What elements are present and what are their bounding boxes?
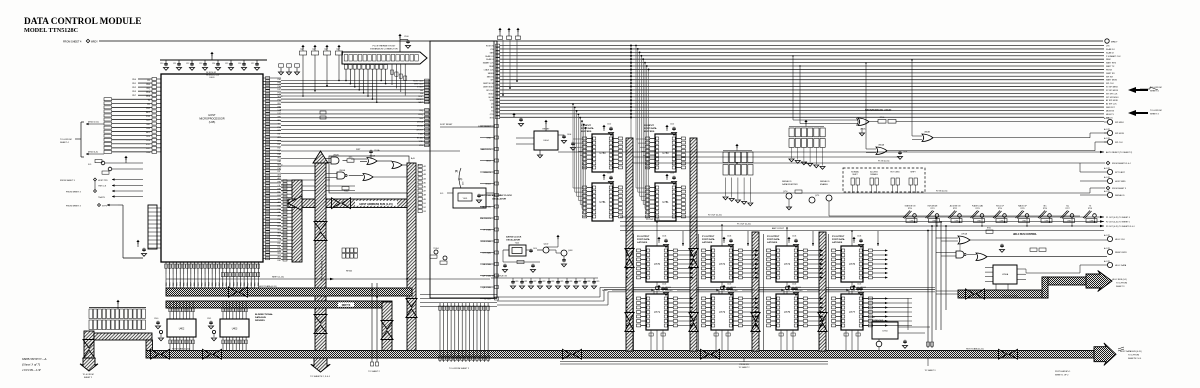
svg-text:C104: C104 — [727, 236, 731, 238]
power VCC latch — [657, 285, 660, 287]
svg-text:PE3: PE3 — [278, 199, 282, 201]
svg-text:WRT CLK: WRT CLK — [414, 84, 424, 86]
svg-text:C425: C425 — [560, 281, 564, 283]
svg-text:ST SPI MOSI: ST SPI MOSI — [1106, 90, 1118, 92]
svg-text:REKEY MPU: REKEY MPU — [1115, 252, 1127, 254]
svg-text:R726: R726 — [1043, 208, 1047, 210]
svg-text:SBRIN: SBRIN — [488, 73, 494, 75]
bus vertical B3 latch — [752, 232, 759, 351]
svg-text:U781: U781 — [662, 200, 669, 204]
svg-text:OSCILLATOR: OSCILLATOR — [506, 239, 520, 242]
wires rail lines to latches — [497, 296, 600, 298]
svg-text:C110: C110 — [670, 124, 674, 126]
wire cluster outputs to bus C — [409, 164, 412, 166]
svg-text:P1 IN (0-15): P1 IN (0-15) — [878, 161, 890, 163]
svg-text:DATA CONTROL MODULE: DATA CONTROL MODULE — [24, 17, 141, 27]
svg-text:TEST: TEST — [486, 161, 492, 163]
svg-text:A10: A10 — [278, 174, 281, 177]
svg-text:PG5: PG5 — [278, 99, 282, 101]
bus arrow host data bottom — [999, 349, 1008, 359]
svg-text:ST SPI MISO: ST SPI MISO — [1106, 87, 1118, 89]
gate U902D AND — [331, 157, 339, 164]
wires latch strobe verticals — [633, 234, 635, 350]
wires HDLC feed into bus — [936, 290, 958, 292]
wire latch pin dots — [821, 250, 823, 252]
svg-text:RP06: RP06 — [880, 117, 885, 119]
svg-text:A8: A8 — [424, 194, 426, 197]
svg-text:REM: REM — [1106, 59, 1111, 61]
svg-text:SPI CLK: SPI CLK — [1106, 83, 1114, 85]
svg-text:BUFFERS: BUFFERS — [581, 131, 592, 133]
gate latch clock inverter — [721, 282, 723, 286]
svg-text:SHEET 4: SHEET 4 — [1150, 91, 1159, 93]
svg-text:DISABLE: DISABLE — [870, 173, 878, 176]
svg-text:RESET: RESET — [543, 129, 551, 131]
svg-text:HALT RCV: HALT RCV — [481, 148, 492, 151]
wires SPI vertical taps — [792, 56, 794, 120]
svg-text:C410: C410 — [533, 248, 537, 250]
svg-text:P1 OUT (0-15) TO SHEET 4: P1 OUT (0-15) TO SHEET 4 — [1106, 217, 1130, 219]
svg-text:C104: C104 — [857, 284, 861, 286]
svg-text:PD4: PD4 — [278, 93, 282, 95]
svg-text:WDAT: WDAT — [732, 289, 739, 292]
svg-text:HOST: HOST — [208, 113, 216, 117]
svg-text:P2 OUTPUT: P2 OUTPUT — [767, 236, 780, 238]
wire latch clock from P OUT lines — [851, 231, 853, 246]
svg-text:U781: U781 — [599, 200, 606, 204]
svg-text:PG5: PG5 — [278, 195, 282, 197]
wire latch pin dots — [821, 298, 823, 300]
gate U902A NAND — [337, 172, 345, 179]
resistor R403 — [517, 260, 524, 263]
svg-text:U776: U776 — [849, 262, 856, 266]
svg-text:RP9: RP9 — [349, 157, 353, 159]
power VCC reset — [544, 120, 547, 122]
gate U761C — [976, 253, 987, 261]
svg-text:WT SPI MISO: WT SPI MISO — [1106, 97, 1119, 99]
svg-text:PB0: PB0 — [278, 106, 282, 108]
wires latch right side loads — [808, 250, 821, 252]
bus arrow B2b — [689, 313, 698, 322]
capacitor C424 osc row — [548, 278, 550, 280]
svg-text:C104: C104 — [662, 236, 666, 238]
svg-text:TRH CLK: TRH CLK — [98, 186, 107, 188]
svg-text:C1040: C1040 — [731, 287, 736, 289]
bus arrow resnet — [83, 340, 95, 349]
connector circles lower group — [1107, 169, 1112, 174]
svg-text:ACCESS: ACCESS — [870, 171, 878, 174]
svg-text:DATA INVERTER: DATA INVERTER — [782, 183, 798, 186]
svg-text:C426: C426 — [569, 281, 573, 283]
svg-text:PH2: PH2 — [278, 79, 282, 81]
wire latch pin dots — [626, 250, 628, 252]
capacitor C100A — [370, 150, 372, 151]
svg-text:D07: D07 — [278, 89, 281, 91]
bus arrow host data bottom — [203, 349, 212, 359]
svg-text:C1040: C1040 — [666, 287, 671, 289]
svg-text:QB CTAL: QB CTAL — [482, 286, 492, 289]
svg-text:MXD2 (1-6): MXD2 (1-6) — [88, 152, 98, 154]
wire latch pin dots — [691, 250, 693, 252]
bus arrow host data upper — [229, 287, 238, 297]
svg-text:HOST ADDRESS BUS (1-15): HOST ADDRESS BUS (1-15) — [359, 203, 392, 206]
svg-text:C104: C104 — [727, 284, 731, 286]
svg-text:C422: C422 — [533, 281, 537, 283]
grounds RN702 — [725, 178, 727, 197]
bus arrowhead to from sheet 2 left — [80, 358, 98, 371]
svg-text:HDLC BUS CONTROL: HDLC BUS CONTROL — [1013, 234, 1037, 236]
bus vertical B2 input port — [690, 138, 697, 351]
svg-text:TO SHEET 2: TO SHEET 2 — [368, 371, 380, 373]
svg-text:SCK: SCK — [146, 144, 151, 146]
testpoint TP404 — [434, 250, 438, 254]
bus arrow B1b — [625, 313, 634, 322]
power VCC latch — [787, 285, 790, 287]
power VCC cluster left of P10 — [301, 45, 304, 47]
svg-text:LTALK CLK: LTALK CLK — [484, 68, 494, 71]
svg-text:FROM SHEET 3: FROM SHEET 3 — [1112, 188, 1126, 190]
svg-text:SMART CLK: SMART CLK — [483, 62, 494, 65]
resistor network RN703 — [789, 128, 794, 137]
svg-text:MRDY: MRDY — [1111, 42, 1118, 44]
capacitor C405 — [572, 142, 574, 143]
bus long signal lines to right sheets — [500, 45, 1104, 47]
IC latch U7720 — [776, 246, 798, 282]
wire latch pin dots — [626, 298, 628, 300]
svg-text:A2: A2 — [424, 169, 426, 172]
svg-text:A-01 P1: A-01 P1 — [1104, 260, 1110, 263]
svg-text:IRQ: IRQ — [278, 120, 282, 122]
svg-text:68P81095E37—A: 68P81095E37—A — [22, 357, 47, 361]
power VCC latch — [852, 285, 855, 287]
svg-text:PORT DATA: PORT DATA — [644, 127, 657, 130]
svg-text:SLAN DO: SLAN DO — [1106, 48, 1115, 51]
connector circles SPI right — [1107, 119, 1112, 124]
svg-text:C110: C110 — [670, 173, 674, 175]
svg-text:LATCHES: LATCHES — [767, 241, 778, 244]
svg-text:IRQ: IRQ — [278, 158, 282, 160]
svg-text:TO & FROM: TO & FROM — [1116, 283, 1127, 285]
bus left input bundle MXDB upper — [112, 98, 152, 100]
svg-text:(Sheet 3 of 7): (Sheet 3 of 7) — [22, 363, 41, 367]
svg-text:WDAT: WDAT — [797, 289, 804, 292]
svg-text:U404: U404 — [543, 140, 549, 142]
svg-text:C104: C104 — [792, 236, 796, 238]
svg-text:U403: U403 — [232, 329, 238, 331]
power VCC latch — [722, 237, 725, 239]
svg-text:P1 OUT (0-15): P1 OUT (0-15) — [737, 224, 751, 226]
svg-text:HOST DATA (0-15): HOST DATA (0-15) — [172, 348, 190, 351]
svg-text:IRQ: IRQ — [146, 88, 150, 90]
svg-text:FROM SHEET 3: FROM SHEET 3 — [60, 180, 76, 182]
connector REKEY — [1107, 249, 1112, 254]
svg-text:A10: A10 — [278, 139, 281, 142]
svg-text:MDM TX: MDM TX — [1106, 114, 1115, 116]
svg-text:HOST MRD: HOST MRD — [1115, 181, 1126, 183]
svg-text:U804B: U804B — [924, 132, 931, 134]
svg-text:U761A: U761A — [961, 233, 968, 236]
capacitor latch clock — [662, 287, 664, 288]
svg-text:TP4: TP4 — [300, 49, 303, 51]
bus HDLC lower segment — [958, 290, 1048, 298]
IC latch U7701 — [646, 294, 668, 330]
svg-text:C423: C423 — [542, 281, 546, 283]
bus group G1 CPU control signals — [281, 80, 430, 82]
svg-text:SYS CTAL: SYS CTAL — [481, 240, 492, 243]
gate U903A OR — [367, 158, 377, 165]
svg-text:SLAN DI: SLAN DI — [1106, 51, 1114, 54]
wires SPI gates connections — [793, 119, 858, 121]
svg-text:AT SPI CLK: AT SPI CLK — [1106, 103, 1117, 106]
svg-text:A1: A1 — [424, 165, 426, 168]
bus arrow vertical2 — [314, 315, 327, 324]
svg-text:PH2: PH2 — [278, 168, 282, 170]
capacitor C750 — [904, 340, 906, 341]
svg-text:SPI MISO: SPI MISO — [1115, 122, 1124, 124]
resistor R761 — [986, 230, 993, 233]
wires HDLC rails to host data bus — [927, 231, 929, 349]
wires CPU left pin stubs — [152, 78, 157, 81]
bus arrow host data bottom — [151, 349, 160, 359]
svg-text:PORT DATA: PORT DATA — [832, 238, 845, 241]
svg-text:C10: C10 — [160, 63, 163, 65]
capacitor C428 osc row — [584, 278, 586, 280]
power VCC lower left of CPU — [136, 240, 139, 242]
gate U761B — [956, 251, 964, 258]
svg-text:A-01 P1: A-01 P1 — [1104, 167, 1110, 170]
svg-text:HOST ADDRESS BUS (1-15): HOST ADDRESS BUS (1-15) — [321, 255, 324, 282]
svg-text:DBRT MISO: DBRT MISO — [483, 87, 494, 89]
svg-text:HDLC BUS (0-1): HDLC BUS (0-1) — [1112, 279, 1127, 281]
svg-text:A6: A6 — [424, 186, 426, 189]
svg-text:FROM SHEET 3: FROM SHEET 3 — [66, 192, 82, 194]
power VCC buffer — [602, 125, 605, 127]
bus HOST DATA bottom main — [146, 351, 1094, 359]
svg-text:DATA BUS: DATA BUS — [255, 316, 266, 319]
svg-text:P3 OUTPUT: P3 OUTPUT — [832, 236, 845, 238]
svg-text:SHEET 3: SHEET 3 — [1116, 286, 1125, 288]
svg-text:TO & FROM: TO & FROM — [82, 374, 93, 376]
svg-text:PE3: PE3 — [278, 82, 282, 84]
svg-text:C420: C420 — [515, 281, 519, 283]
svg-text:C141: C141 — [207, 318, 211, 320]
svg-text:U780: U780 — [662, 151, 669, 155]
svg-text:MRDY: MRDY — [91, 42, 98, 44]
transistor Q403 — [561, 250, 567, 256]
svg-text:HDLC DATA: HDLC DATA — [1115, 264, 1127, 267]
svg-text:BCLK: BCLK — [486, 184, 492, 186]
svg-text:P1 INPUT: P1 INPUT — [581, 125, 592, 127]
wires latch right side loads — [678, 250, 691, 252]
svg-text:R725: R725 — [1020, 208, 1024, 210]
svg-text:1015/99—UP: 1015/99—UP — [22, 368, 41, 372]
svg-text:U750: U750 — [882, 331, 888, 333]
svg-text:XIRQ: XIRQ — [418, 114, 423, 116]
bus arrowhead host data right end — [1094, 343, 1116, 366]
svg-text:C404: C404 — [567, 134, 571, 136]
label P1 IN right end — [1106, 161, 1110, 165]
power VCC P10 — [398, 34, 401, 36]
capacitor C421 osc row — [521, 278, 523, 280]
gate U761A — [958, 236, 970, 244]
svg-text:SYS BAL: SYS BAL — [482, 252, 492, 255]
svg-text:U772: U772 — [719, 262, 726, 266]
svg-text:HOST DATA (0-15): HOST DATA (0-15) — [259, 285, 277, 288]
svg-text:B2: B2 — [424, 207, 426, 209]
svg-text:R723: R723 — [975, 208, 979, 210]
power VCC buffer — [665, 125, 668, 127]
capacitor C140 — [157, 321, 159, 322]
svg-text:RP405: RP405 — [346, 271, 353, 273]
wires CPU bottom pin stubs — [165, 262, 167, 274]
svg-text:LATCHES: LATCHES — [637, 241, 648, 244]
capacitor C141 — [210, 321, 212, 322]
svg-text:A-01 P1: A-01 P1 — [1104, 190, 1110, 193]
wires latch lower IC to host data bus — [715, 330, 717, 350]
capacitor latch clock — [727, 287, 729, 288]
wire P2 OUT 0-15 — [620, 216, 1104, 218]
svg-text:C428: C428 — [587, 281, 591, 283]
svg-text:TDA PS: TDA PS — [98, 196, 105, 199]
wires latch lower IC to host data bus — [845, 330, 847, 350]
wires buffer left pins up to bus lines — [636, 138, 646, 140]
svg-text:C1040: C1040 — [796, 287, 801, 289]
wires buffer2 left pins row2 — [573, 187, 583, 189]
svg-text:SOFT RESET: SOFT RESET — [440, 124, 453, 126]
svg-text:R761: R761 — [987, 228, 991, 230]
svg-text:SB CTAL: SB CTAL — [482, 263, 491, 266]
wire NOP stub — [320, 111, 326, 114]
svg-text:C427: C427 — [578, 281, 582, 283]
bus arrowhead to sheets 2 3 4 — [311, 358, 331, 372]
svg-text:MODA: MODA — [417, 121, 424, 124]
transistor Q402 — [543, 247, 549, 253]
wire latch clock from P OUT lines — [721, 225, 723, 246]
wires latch strobe verticals — [698, 234, 700, 350]
wire WRT line — [281, 150, 460, 152]
svg-text:2 SOMART CLK: 2 SOMART CLK — [1106, 55, 1121, 58]
svg-text:PM PROTN: PM PROTN — [480, 218, 491, 220]
power VCC latch — [852, 237, 855, 239]
bus arrow B4 — [818, 313, 827, 322]
svg-text:PA1: PA1 — [278, 160, 281, 163]
bus HDLC upper segment — [1042, 277, 1088, 285]
svg-text:NMI: NMI — [419, 118, 423, 120]
wire latch pin dots — [691, 298, 693, 300]
svg-text:NREY (1-15): NREY (1-15) — [272, 277, 284, 279]
wires P3 latch to HDLC rails — [863, 298, 908, 300]
svg-text:C16: C16 — [238, 63, 241, 65]
svg-text:IRQ: IRQ — [419, 110, 423, 112]
svg-text:HALT: HALT — [418, 101, 424, 104]
svg-text:HOST PPS: HOST PPS — [98, 180, 108, 182]
svg-text:A10: A10 — [278, 225, 281, 228]
svg-text:C421: C421 — [524, 281, 528, 283]
svg-text:REM: REM — [489, 66, 494, 68]
svg-text:(U45): (U45) — [209, 120, 216, 124]
svg-text:MODEL TTN5128C: MODEL TTN5128C — [24, 27, 78, 34]
svg-text:C100: C100 — [404, 36, 409, 38]
svg-text:DBRT MOSI: DBRT MOSI — [483, 83, 494, 85]
capacitor C_P10 — [407, 40, 409, 41]
svg-text:VCC DISPLAY ON: VCC DISPLAY ON — [492, 275, 508, 278]
svg-text:EXTAL: EXTAL — [417, 136, 424, 139]
wire P1 IN 0-15 — [633, 162, 1105, 164]
wires CPU right pins into address collector — [281, 180, 292, 182]
power VCC latch — [657, 237, 660, 239]
bus vertical B4 latch — [819, 232, 826, 351]
svg-text:U401: U401 — [209, 77, 215, 79]
svg-text:SHIFT: SHIFT — [910, 172, 916, 174]
svg-text:C104: C104 — [792, 284, 796, 286]
wires below host data bus — [560, 361, 828, 363]
bus arrow vertical C — [406, 299, 417, 308]
svg-text:A-01 P1: A-01 P1 — [1104, 247, 1110, 250]
svg-text:A-01 P1: A-01 P1 — [1104, 234, 1110, 237]
svg-text:D07: D07 — [278, 113, 281, 115]
svg-text:SPI MOSI: SPI MOSI — [1115, 133, 1124, 135]
svg-text:SHIFT: SHIFT — [852, 174, 858, 176]
svg-text:PE3: PE3 — [278, 250, 282, 252]
svg-text:MODB: MODB — [417, 126, 424, 128]
svg-text:IRQ: IRQ — [278, 229, 282, 231]
IC U404 reset supervisor — [534, 131, 558, 150]
svg-text:WRT: WRT — [356, 149, 361, 151]
svg-text:AT SPI MOSI: AT SPI MOSI — [1106, 99, 1118, 102]
power VCC CPU left — [124, 156, 127, 158]
wire osc1 N.C. — [447, 192, 453, 194]
svg-text:IRQ: IRQ — [278, 103, 282, 105]
svg-text:PROM DN: PROM DN — [740, 364, 750, 366]
wire auto reset — [558, 151, 1104, 153]
svg-text:TP4: TP4 — [312, 49, 315, 51]
svg-text:WDAT: WDAT — [602, 289, 609, 292]
bus group G2 CPU interrupt signals — [281, 109, 430, 111]
svg-text:AD2: AD2 — [278, 136, 282, 139]
svg-text:C17: C17 — [251, 63, 254, 65]
svg-text:PLRTU-HRGP-O: PLRTU-HRGP-O — [1055, 371, 1071, 373]
svg-text:P0 INPUT: P0 INPUT — [644, 125, 655, 127]
svg-text:R721: R721 — [930, 208, 934, 210]
svg-text:PORT DATA: PORT DATA — [767, 238, 780, 241]
svg-text:SBRT RTN: SBRT RTN — [1106, 63, 1116, 65]
bus resnet elbow right — [94, 333, 152, 340]
svg-text:(16): (16) — [458, 178, 462, 181]
bus from resistor network down — [84, 331, 94, 361]
wires comb horizontal feeds — [420, 294, 497, 296]
svg-text:P0 OUTPUT: P0 OUTPUT — [637, 236, 650, 238]
svg-text:SPI CLK: SPI CLK — [1115, 142, 1123, 144]
power VCC buffer — [665, 174, 668, 176]
wire latch clock from P OUT lines — [786, 228, 788, 246]
bus vertical C right — [407, 163, 416, 352]
svg-text:A5: A5 — [424, 181, 426, 184]
wire P1 OUT 0-15 — [620, 225, 1104, 227]
bus arrow host data bottom — [701, 349, 710, 359]
connector comb to sheet 2 bottom middle — [439, 303, 441, 362]
svg-text:MISO: MISO — [489, 93, 494, 95]
svg-text:A,B: A,B — [411, 157, 415, 160]
svg-text:PH2: PH2 — [278, 86, 282, 88]
oscillator Y401 4.9152MHz — [453, 188, 486, 208]
IC latch U7721 — [776, 294, 798, 330]
IC latch U7700 — [646, 246, 668, 282]
bus arrow host data bottom — [563, 349, 572, 359]
svg-text:[B]: [B] — [455, 170, 458, 173]
power VCC latch — [722, 285, 725, 287]
resistor RP06 — [878, 120, 886, 124]
svg-text:QP CTAL: QP CTAL — [482, 275, 492, 278]
